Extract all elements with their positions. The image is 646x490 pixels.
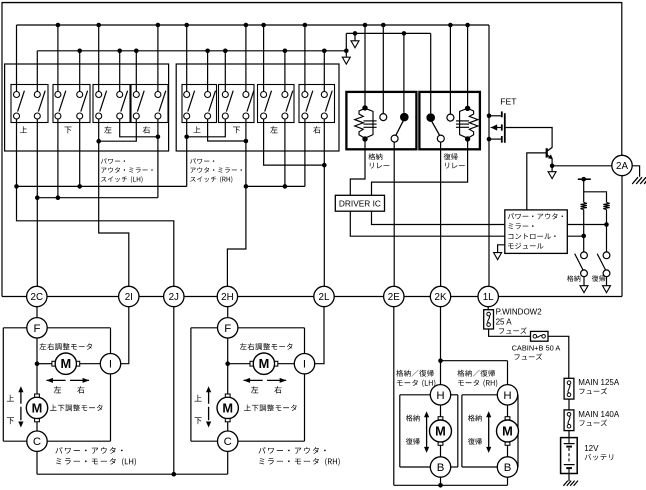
svg-text:MAIN 140A: MAIN 140A (578, 410, 620, 419)
DRIVER IC box (335, 195, 384, 211)
svg-text:FET: FET (500, 96, 517, 106)
wire connector 2C to F (LH) (36, 307, 38, 318)
motor M1 左右調整モータ (LH) (37, 353, 100, 374)
svg-text:P.WINDOW2: P.WINDOW2 (496, 308, 543, 317)
svg-text:2J: 2J (169, 292, 179, 303)
switch bank box パワー・アウタ・ミラー・スイッチ (RH) (176, 64, 339, 151)
wire connector 2H to F (RH) (227, 307, 229, 318)
label 格納 (switch) (567, 275, 580, 281)
connector 2E (384, 286, 404, 306)
terminal B (RH) (497, 457, 517, 477)
svg-text:25 A: 25 A (496, 317, 513, 326)
wire bus2 (y=50.8) with junctions (37, 49, 348, 54)
wire connector row (47, 296, 478, 298)
wire 下L to 上L crossover (RH bank) (184, 119, 225, 139)
wire node line2 (y=197.7) to connector 2C (35, 119, 158, 286)
svg-text:2E: 2E (388, 292, 400, 303)
wire module to resistor divider (upper) (567, 222, 608, 227)
connector 2J (164, 286, 184, 306)
wire 2A to chassis ground (632, 166, 640, 177)
svg-text:2K: 2K (435, 292, 447, 303)
chassis ground at 2A (632, 177, 646, 184)
label 格納 (RH box) (468, 415, 482, 422)
motor M 格納／復帰モータ (RH) (497, 405, 519, 457)
wire bus1 to coil 格納 (364, 25, 366, 106)
wire bus3 (y=33.4) relay drive bus (346, 31, 430, 36)
terminal B (LH) (430, 457, 450, 477)
motor box パワー・アウタ・ミラー・モータ (LH) (3, 328, 110, 441)
wire 左R to 右R crossover (LH bank) (120, 119, 161, 139)
arrow 格納/復帰 (RH) (486, 411, 491, 453)
switch 格納 (module) (575, 252, 588, 277)
wire switch 復帰 to off-page arrow (603, 277, 611, 293)
svg-text:M: M (259, 356, 270, 371)
wire B+ to resistor R1 (583, 179, 585, 202)
power feed bar B+ (578, 177, 591, 182)
arrow 格納/復帰 (LH) (424, 411, 429, 453)
wire F down to M2 (LH) (35, 338, 40, 396)
label 下 (64, 127, 71, 134)
label パワー・アウタ・ミラー・モータ (RH) (258, 447, 339, 466)
wire 左L (RH) join 右R (RH) to connector 2L (264, 119, 327, 286)
label 格納／復帰モータ (LH) (396, 370, 435, 387)
wire P.WINDOW2 to CABIN+B fuse (489, 329, 531, 336)
svg-text:C: C (33, 436, 41, 448)
switch 復帰 (module) (597, 252, 610, 277)
label 右 (313, 126, 320, 133)
wire module to resistor divider (lower) (567, 234, 586, 239)
svg-text:CABIN+B 50 A: CABIN+B 50 A (512, 344, 561, 353)
wire right border down to 2A (621, 2, 623, 156)
svg-text:I: I (303, 359, 306, 371)
fuse P.WINDOW2 25A (484, 310, 494, 329)
svg-text:2L: 2L (319, 292, 330, 303)
label FET (500, 96, 517, 106)
wire connector 2K to H terminals (438, 307, 507, 385)
wire bus1 (y=25) with junctions (17, 23, 490, 28)
svg-text:I: I (109, 359, 112, 371)
wire top border bus (2, 2, 622, 4)
label 左右調整モータ (LH) (39, 343, 92, 350)
wire line1 drop to 2J via y=220.8 (17, 186, 174, 286)
motor box 格納／復帰モータ (LH) (400, 395, 458, 467)
svg-text:M: M (435, 424, 446, 439)
svg-text:F: F (224, 323, 231, 335)
wire 右L to 左L crossover (LH bank) (96, 119, 136, 144)
label 復帰 (RH box) (468, 438, 482, 445)
FET U2 symbol (489, 111, 505, 142)
switch bank box パワー・アウタ・ミラー・スイッチ (LH) (5, 64, 169, 151)
terminal F (RH) (218, 318, 238, 338)
label MAIN 125A フューズ (578, 378, 620, 394)
switch unit 下 (x=218.5) (219, 85, 255, 123)
terminal C (LH) (27, 431, 47, 451)
wire C(LH) to C(RH) and connector 2J (37, 307, 228, 477)
terminal I (RH) (294, 354, 314, 374)
wire bus3 to 格納 moving contact (403, 33, 405, 112)
label 上下調整モータ (LH) (50, 404, 103, 411)
svg-text:12V: 12V (584, 444, 599, 453)
label 左 (270, 126, 277, 133)
label 左 (LH) (54, 386, 61, 393)
wire 左L (LH) to connector 2I (99, 119, 129, 286)
wire bus1 to 格納 fixed contact (382, 25, 384, 114)
motor M2 上下調整モータ (RH) (217, 394, 238, 431)
svg-text:M: M (32, 400, 43, 415)
label 左右調整モータ (RH) (240, 343, 293, 350)
motor box 格納／復帰モータ (RH) (462, 395, 518, 467)
transistor Q1 (547, 147, 553, 159)
battery 12V バッテリ (561, 438, 578, 474)
fuse MAIN 140A (564, 410, 574, 431)
wire FET gate to transistor Q1 (506, 128, 552, 148)
label 格納 (LH box) (406, 415, 420, 422)
svg-text:DRIVER IC: DRIVER IC (339, 198, 381, 208)
label 上 (20, 126, 27, 133)
wire Q1 emitter to 2A (550, 159, 613, 168)
label 下 (RH) (195, 417, 202, 424)
label P.WINDOW2 25 A フューズ (496, 308, 543, 334)
label 下 (233, 127, 240, 134)
relay box 格納リレー (346, 92, 416, 149)
label 格納リレー (368, 153, 389, 168)
terminal H (LH) (430, 385, 450, 405)
switch unit 左 (x=93) (93, 85, 130, 123)
wire R2 to switch 復帰 (606, 210, 608, 252)
wire Q1 base to module (527, 153, 547, 210)
svg-text:1L: 1L (483, 292, 494, 303)
arrow 上/下 (LH) (18, 386, 23, 427)
svg-text:MAIN 125A: MAIN 125A (578, 378, 620, 387)
svg-text:M: M (502, 424, 513, 439)
label 格納／復帰モータ (RH) (457, 370, 497, 387)
connector 2C (27, 286, 47, 306)
wire DRIVER IC to module (upper) (372, 211, 505, 224)
off-page arrow below Q1 emitter (548, 166, 556, 179)
label 復帰 (switch) (592, 275, 605, 281)
connector 2A (612, 155, 632, 175)
label 復帰リレー (444, 153, 465, 168)
label MAIN 140A フューズ (578, 410, 620, 426)
wire battery to ground (568, 474, 570, 482)
svg-text:2A: 2A (616, 161, 628, 172)
arrows 左/右 (LH) (46, 378, 89, 383)
wire 復帰 relay common to connector 2K (440, 142, 442, 286)
wire B terminals to connector 2E (394, 307, 508, 488)
motor M 格納／復帰モータ (LH) (430, 405, 452, 457)
connector 2H (217, 286, 237, 306)
svg-text:M: M (60, 356, 71, 371)
label 右 (LH) (77, 386, 84, 393)
svg-text:F: F (34, 323, 41, 335)
connector 1L (478, 286, 498, 306)
wire I to connector 2I (LH) (121, 307, 129, 364)
wire I to connector 2L (RH) (315, 307, 324, 364)
wire bus1 to coil 復帰 (467, 25, 469, 106)
wire R1 to switch 格納 (583, 210, 585, 252)
fuse CABIN+B 50A (531, 331, 549, 341)
terminal H (RH) (497, 385, 517, 405)
label 下 (LH) (7, 417, 14, 424)
wire CABIN+B to MAIN fuses (548, 336, 569, 378)
svg-text:H: H (436, 390, 444, 402)
resistor R2 (603, 202, 609, 209)
module box パワー・アウタ・ミラー・コントロール・モジュール (505, 210, 568, 254)
svg-text:H: H (503, 390, 511, 402)
label 右 (RH) (274, 386, 281, 393)
relay contact 復帰リレー (426, 113, 453, 142)
wire bus1 to 復帰 fixed contact (449, 25, 451, 114)
wires bus2 to switch top contacts (37, 51, 324, 92)
label 12V バッテリ (584, 444, 613, 460)
fuse MAIN 125A (564, 378, 574, 399)
arrow 上/下 (RH) (206, 386, 211, 427)
wire branch to resistor R2 (584, 192, 607, 203)
wire DRIVER IC to module (lower) (350, 211, 504, 236)
wire left border bus (2, 2, 27, 297)
wire 格納 coil to DRIVER IC (350, 139, 365, 195)
switch unit 右 (x=299) (299, 85, 335, 123)
wire F down to M2 (RH) (225, 338, 230, 396)
wire 格納 relay common to connector 2E (393, 142, 395, 286)
wire 上R to 下R crossover (RH bank) (208, 119, 249, 143)
relay coil 格納リレー (355, 105, 377, 141)
svg-text:M: M (222, 400, 233, 415)
svg-text:2H: 2H (221, 292, 234, 303)
terminal C (RH) (218, 431, 238, 451)
terminal F (LH) (27, 318, 47, 338)
wire 下R (RH) to connector 2H (227, 119, 246, 286)
wires bus1 to switch top contacts (17, 25, 305, 92)
chassis ground at battery (563, 481, 578, 486)
svg-text:B: B (504, 462, 512, 474)
label パワー・アウタ・ミラー・モータ (LH) (55, 447, 136, 466)
connector 2I (119, 286, 139, 306)
label DRIVER IC (339, 198, 381, 208)
switch unit 左 (x=257.5) (258, 85, 295, 123)
arrows 左/右 (RH) (243, 378, 286, 383)
label 左 (RH) (251, 386, 258, 393)
svg-text:2C: 2C (31, 292, 44, 303)
wire module to off-page arrow (bottom left) (494, 245, 505, 260)
svg-text:C: C (224, 436, 232, 448)
switch unit 下 (x=53) (53, 85, 90, 123)
relay contact 格納リレー (380, 113, 409, 142)
wire connector 1L to fuse P.WINDOW2 (487, 307, 489, 310)
svg-text:B: B (437, 462, 445, 474)
wire node line1 (y=186.4) LH bank outputs (14, 119, 187, 189)
wire bus1 to FET to connector 1L (487, 25, 492, 286)
motor M1 左右調整モータ (RH) (228, 353, 295, 374)
switch unit 上 (x=11) (11, 85, 48, 123)
wire 復帰 coil to DRIVER IC (372, 139, 468, 195)
motor M2 上下調整モータ (LH) (26, 394, 47, 431)
resistor R1 (581, 202, 587, 209)
wire node seg2 (y=186.4) RH bank outputs (244, 119, 305, 189)
label 左 (104, 126, 111, 133)
label 上 (193, 126, 200, 133)
wire MAIN125A to MAIN140A (568, 399, 570, 410)
switch unit 右 (x=131) (131, 85, 168, 123)
wire bus2 end drop with off-page arrow (342, 33, 350, 64)
label 復帰 (LH box) (406, 438, 420, 445)
wire bus3 to 復帰 moving contact (430, 33, 432, 113)
terminal I (LH) (100, 354, 120, 374)
wire 2A down to connector row (498, 175, 622, 296)
connector 2K (430, 286, 450, 306)
connector 2L (314, 286, 334, 306)
relay box 復帰リレー (419, 92, 480, 149)
wire MAIN140A to battery (568, 431, 570, 438)
label 右 (143, 126, 150, 133)
motor box パワー・アウタ・ミラー・モータ (RH) (191, 328, 305, 441)
relay coil 復帰リレー (456, 106, 478, 142)
wire switch 格納 to off-page arrow (580, 277, 588, 293)
label パワー・アウタ・ミラー・スイッチ (RH) (190, 158, 242, 183)
label パワー・アウタ・ミラー・スイッチ (LH) (101, 158, 153, 183)
label パワー・アウタ・ミラー・コントロール・モジュール (508, 213, 563, 249)
switch unit 上 (x=182) (182, 85, 217, 123)
off-page arrow under bus3 (351, 33, 359, 47)
label 上 (RH) (195, 395, 202, 402)
label 上 (LH) (7, 395, 14, 402)
label 上下調整モータ (RH) (244, 404, 297, 411)
svg-text:2I: 2I (125, 292, 133, 303)
label CABIN+B 50 A フューズ (512, 344, 561, 360)
